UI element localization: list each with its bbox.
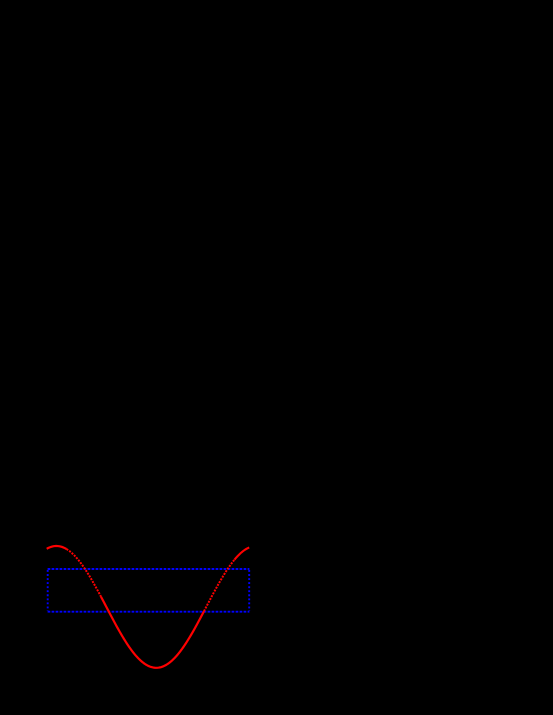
blue dotted rectangle right edge bbox=[248, 570, 250, 611]
red cosine curve solid segment 3 (steep left, trough, steep right) bbox=[101, 597, 204, 668]
red cosine curve segment 5 (right tip) bbox=[235, 547, 250, 559]
red cosine curve dotted segment 2 (left descent) bbox=[67, 549, 102, 597]
blue dotted rectangle top edge bbox=[48, 568, 250, 570]
blue dotted rectangle bottom edge bbox=[48, 611, 250, 613]
blue dotted rectangle left edge bbox=[47, 570, 49, 611]
red cosine curve solid segment 1 (flat top left) bbox=[47, 546, 67, 549]
red cosine curve dotted segment 4 (right ascent) bbox=[204, 560, 235, 612]
